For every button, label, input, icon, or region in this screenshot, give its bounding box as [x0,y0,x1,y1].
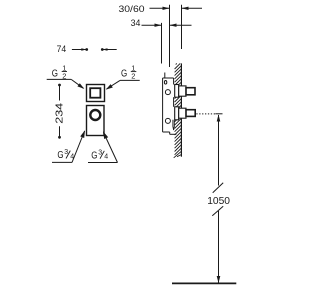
dimension 1050 top tick [215,113,222,115]
svg-text:74: 74 [57,44,67,55]
svg-text:4: 4 [104,154,108,161]
extension line B (wall front face) [169,5,171,67]
dimension 234 lower line and dot [58,126,61,138]
dimension 74 left arrow line with end dot [72,48,88,51]
label G 1/2 left [47,64,71,81]
dimension 34 right arrow line [170,24,192,27]
dimension 30/60 right arrow line [182,7,203,10]
leader from G 3/4 left to outlet [72,130,85,162]
valve front view: cartridge ring [90,110,100,120]
bottom port side view flange [175,107,179,120]
svg-text:G: G [52,67,58,79]
dimension 1050 up arrow [217,115,221,122]
dimension 1050 lower shaft [218,211,220,283]
extension line C (wall rear face) [181,5,183,49]
dotted reference line from lower port [196,113,216,115]
mounting bracket (side view) [163,73,177,135]
svg-text:1050: 1050 [207,195,230,207]
leader from G 1/2 right to valve inlet [106,80,120,89]
wall section hatch [174,63,182,157]
svg-text:34: 34 [131,18,141,29]
valve front view: lower body rectangle [87,106,105,136]
dimension 1050 down arrow [217,276,221,283]
label G 3/4 right [88,149,118,162]
svg-text:G: G [91,150,97,162]
dimension 1050 upper break slash [213,183,224,193]
top port side view stub (G1/2 nipple) [186,88,195,95]
bottom port side view stub [186,110,195,117]
bottom port side view body [179,108,186,118]
label G 1/2 right [120,64,140,81]
svg-text:2: 2 [131,71,135,80]
top port side view flange [175,85,179,98]
dimension 34 left arrow line [142,24,162,27]
dimension 1050 upper shaft [218,115,220,186]
wall rear face line [180,63,182,156]
dimension 1050 lower break slash [212,206,223,216]
svg-text:G: G [57,149,63,161]
valve front view: top port inner square [90,88,100,98]
dimension 30/60 left arrow line [150,7,170,10]
svg-text:234: 234 [53,103,65,124]
label G 3/4 left [52,149,74,162]
bracket screw hole lower [165,118,170,123]
leader from G 3/4 right to outlet [103,131,118,162]
leader from G 1/2 left to valve inlet [71,79,84,89]
dimension 74 right arrow line with end dot [101,48,117,51]
temperature probe tip [173,120,174,130]
top port side view body [179,86,186,96]
svg-text:30/60: 30/60 [119,4,145,15]
bracket screw hole upper [165,90,170,95]
svg-text:G: G [121,67,127,79]
valve front view: top port outer square [87,85,105,102]
dimension 234 upper dot and line [58,84,61,101]
floor line [172,282,236,284]
extension line A (finished wall face) [161,23,163,64]
